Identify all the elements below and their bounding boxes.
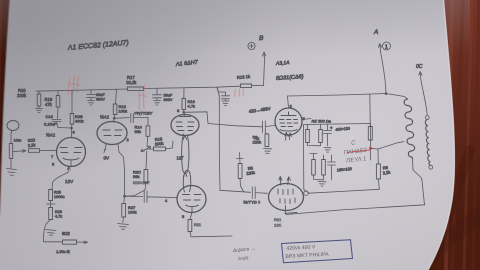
svg-text:½Λ1: ½Λ1 <box>100 114 110 120</box>
V5 cathode arrows <box>285 133 292 141</box>
svg-text:λυψη: λυψη <box>237 255 249 261</box>
wire between cathode resistors <box>47 201 56 208</box>
V1 internal grid dashes <box>60 148 82 153</box>
resistor R17 18,2k (series in bus) <box>128 87 144 91</box>
svg-text:400k: 400k <box>75 119 84 124</box>
wire rail right vertical <box>422 181 425 205</box>
ground under R3 <box>264 149 272 154</box>
svg-text:2,2k: 2,2k <box>382 169 390 175</box>
capacitor bus bypass 3 <box>217 87 230 100</box>
svg-text:A: A <box>373 29 378 36</box>
svg-text:R21: R21 <box>194 223 201 227</box>
resistor R6 2,2k <box>376 164 380 179</box>
ground snubber upper <box>308 137 332 152</box>
svg-text:ΥΦ(ΤΥΩ2Υ: ΥΦ(ΤΥΩ2Υ <box>134 112 153 116</box>
wire pot wiper arrow <box>13 150 26 153</box>
wire V4 cathode resistor out <box>190 232 232 237</box>
snubber upper capacitor <box>324 124 332 137</box>
V3 internal dashes <box>176 122 194 131</box>
svg-text:B: B <box>259 35 264 42</box>
svg-text:56k: 56k <box>133 174 139 179</box>
wire bus to V2 plate <box>116 89 117 104</box>
svg-text:33uF: 33uF <box>96 93 105 97</box>
V6 cathode stem <box>285 206 297 214</box>
resistor R20 <box>38 91 40 94</box>
junction arrows <box>141 146 151 151</box>
wire primary bottom <box>413 158 423 180</box>
ground under bypass 3 <box>222 101 229 106</box>
circled 1 node A <box>383 42 391 50</box>
V5 grid dashes <box>280 120 298 127</box>
capacitor C16 0,15uF <box>52 120 61 128</box>
wire B+ vertical <box>264 60 265 86</box>
svg-text:ΤΑΓΓΥΩ: ΤΑΓΓΥΩ <box>243 201 257 205</box>
arrow 0C <box>419 72 422 80</box>
svg-text:R25: R25 <box>54 191 61 195</box>
resistor 1000n cathode bypass <box>49 190 53 201</box>
blue box <box>282 240 353 263</box>
wire junction to transformer tap <box>371 142 405 150</box>
red doodle 1 <box>68 77 79 94</box>
resistor R5 220k <box>239 159 241 164</box>
top plate rail wire <box>288 94 408 100</box>
resistor R27 100k <box>123 196 126 203</box>
wire main B+ bus <box>36 86 264 92</box>
wire R19 to C16 <box>57 107 60 119</box>
svg-text:Λ2: Λ2 <box>255 136 261 141</box>
svg-text:0V: 0V <box>104 156 111 161</box>
V1 cathode <box>63 158 79 160</box>
coupling capacitor V2 to network <box>114 114 148 123</box>
V1 cathode arrow <box>67 167 70 173</box>
V5 plate bar <box>281 112 296 116</box>
svg-text:1: 1 <box>385 45 388 51</box>
wire top rail to box right edge <box>369 94 372 127</box>
wire R15 to V3 grid <box>166 141 174 149</box>
svg-text:18,2k: 18,2k <box>126 80 137 85</box>
wire V3 plate to V5 grid <box>184 112 263 127</box>
paper right edge lit line <box>428 0 454 270</box>
wire cap to R14 <box>147 117 149 125</box>
resistor R15 300k <box>154 147 166 151</box>
red junction dot <box>369 147 372 150</box>
ground under bypass 2 <box>154 101 161 106</box>
svg-text:56k: 56k <box>135 129 141 134</box>
svg-text:100k: 100k <box>128 210 137 215</box>
ground under R20 <box>36 109 43 113</box>
wire R14 to junction arrows <box>146 136 149 146</box>
ground snubber lower <box>314 170 332 186</box>
wire 8Ω2 arrow out <box>77 241 88 244</box>
resistor 8Ω2 <box>63 240 77 244</box>
resistor R14 56k <box>146 126 150 137</box>
wire C16 to plate node <box>58 127 72 130</box>
svg-text:300k: 300k <box>155 141 164 147</box>
wire bottom rail <box>285 205 424 215</box>
capacitor bus bypass 1 <box>87 90 96 100</box>
resistor R16 4,7k V3 plate load <box>183 88 185 99</box>
tube V6 output <box>269 184 304 211</box>
ground input <box>7 169 17 176</box>
wire junction down <box>145 151 148 170</box>
snubber lower resistor b <box>323 155 325 160</box>
wire R26 down to 8Ω2 <box>44 220 63 242</box>
volume pot <box>10 139 12 144</box>
svg-text:R21: R21 <box>274 217 282 222</box>
svg-text:100k: 100k <box>119 109 128 114</box>
svg-text:1,50ε ℓℓ.: 1,50ε ℓℓ. <box>56 249 70 254</box>
V3 plate node <box>183 111 185 113</box>
svg-text:C16: C16 <box>46 114 54 119</box>
ground under R27 <box>118 217 129 229</box>
svg-text:12V: 12V <box>65 179 74 184</box>
svg-text:1000n: 1000n <box>54 195 65 199</box>
V2 cathode stems <box>106 144 120 153</box>
V2 internal dashes <box>103 130 122 136</box>
svg-text:R26: R26 <box>55 210 62 214</box>
wire rail to V6 coupling cap <box>220 187 268 199</box>
tube V1 <box>57 138 86 167</box>
input jack <box>7 121 19 131</box>
capacitor arrowed node above R5 <box>237 153 244 159</box>
V4 internal dashes <box>183 195 202 201</box>
svg-text:ΚΩΗ×100Γ: ΚΩΗ×100Γ <box>133 181 150 185</box>
wire plate resistor to V2 <box>114 115 116 123</box>
wire R6 to feedback run <box>377 179 380 189</box>
svg-text:0,15uF: 0,15uF <box>44 122 57 127</box>
red doodle 2 <box>139 86 145 111</box>
wire V2 cathode to long tail <box>119 152 125 196</box>
wire A to plate line <box>381 51 387 94</box>
V5 cathode arc <box>280 130 297 132</box>
tube V2 <box>97 122 127 145</box>
wire R22 to V1 grid <box>40 149 57 151</box>
ground under bypass 1 <box>88 101 95 106</box>
wire V1 cathode down <box>52 173 68 190</box>
V6 internal vertical dashes <box>278 189 295 204</box>
feedback run to box terminal <box>309 189 379 193</box>
svg-text:300V: 300V <box>164 98 173 102</box>
resistor 56k lower <box>144 170 148 183</box>
output transformer primary <box>404 99 414 158</box>
paper left edge shade <box>0 0 10 215</box>
secondary terminal top <box>425 116 429 120</box>
svg-text:½Λ1: ½Λ1 <box>46 132 56 138</box>
resistor R19 47k <box>57 91 59 96</box>
resistor R2B 400k V1 plate load <box>71 91 73 114</box>
svg-text:+: + <box>330 126 333 131</box>
svg-text:RZ 500 Ωa: RZ 500 Ωa <box>312 119 332 124</box>
V6 top electrode arrows <box>279 177 291 186</box>
svg-text:47k: 47k <box>45 102 53 107</box>
snubber upper resistor a <box>307 124 309 129</box>
resistor V4 cathode <box>190 212 192 219</box>
svg-text:4,7k: 4,7k <box>55 215 62 219</box>
circled plus at B <box>248 42 255 49</box>
resistor R13 1k (series to B+) <box>241 84 252 88</box>
svg-text:220k: 220k <box>17 93 27 98</box>
V3 plate bar <box>180 116 191 118</box>
svg-text:8Ω2: 8Ω2 <box>62 231 70 236</box>
coupling capacitor to V4 <box>125 191 178 203</box>
svg-text:12K: 12K <box>274 223 281 228</box>
resistor R22 <box>29 149 40 153</box>
wire 56k to cap node <box>125 183 146 197</box>
svg-text:0C: 0C <box>416 64 423 70</box>
snubber upper resistor b <box>320 124 322 129</box>
tube V4 <box>177 186 206 213</box>
arrow A <box>378 44 381 52</box>
svg-text:Λ3,1Α: Λ3,1Α <box>275 60 291 67</box>
resistor R3 220k <box>265 133 267 135</box>
coupling capacitor to V5 grid <box>263 121 275 133</box>
tube V3 <box>171 115 199 136</box>
terminal circle <box>304 191 308 195</box>
svg-text:33uF: 33uF <box>164 94 173 98</box>
small ground scribble <box>46 230 57 236</box>
arrow B+ <box>263 52 266 60</box>
wire V5 plate up to top rail <box>288 96 289 108</box>
svg-text:4,7k: 4,7k <box>188 104 196 109</box>
transformer secondary <box>425 120 430 166</box>
V4 cathode <box>186 205 199 212</box>
blue note text <box>232 246 256 261</box>
red stamp text <box>342 139 369 165</box>
red doodle 3 <box>235 89 244 97</box>
resistor on box right edge <box>368 127 372 141</box>
loop arrow V3 cathode <box>182 134 189 173</box>
loop arrow to V4 <box>183 170 191 192</box>
secondary terminal bottom <box>429 165 433 169</box>
long vertical rail to lower stage <box>217 87 220 190</box>
tube V5 <box>275 108 302 135</box>
svg-text:2,2k: 2,2k <box>28 142 36 148</box>
svg-text:12Γ: 12Γ <box>177 156 185 161</box>
resistor 100k V2 plate load <box>113 104 117 115</box>
snubber lower resistor a <box>310 154 317 160</box>
capacitor bus bypass 2 <box>153 88 162 100</box>
wire 0C to secondary <box>421 79 427 116</box>
red underline <box>347 150 370 153</box>
svg-text:10m: 10m <box>14 138 22 143</box>
snubber box <box>304 124 371 193</box>
svg-text:350V: 350V <box>96 98 105 102</box>
snubber lower capacitor <box>328 155 336 170</box>
wire feedback down to R6 <box>377 149 379 164</box>
resistor R26 4,7k <box>49 208 53 220</box>
